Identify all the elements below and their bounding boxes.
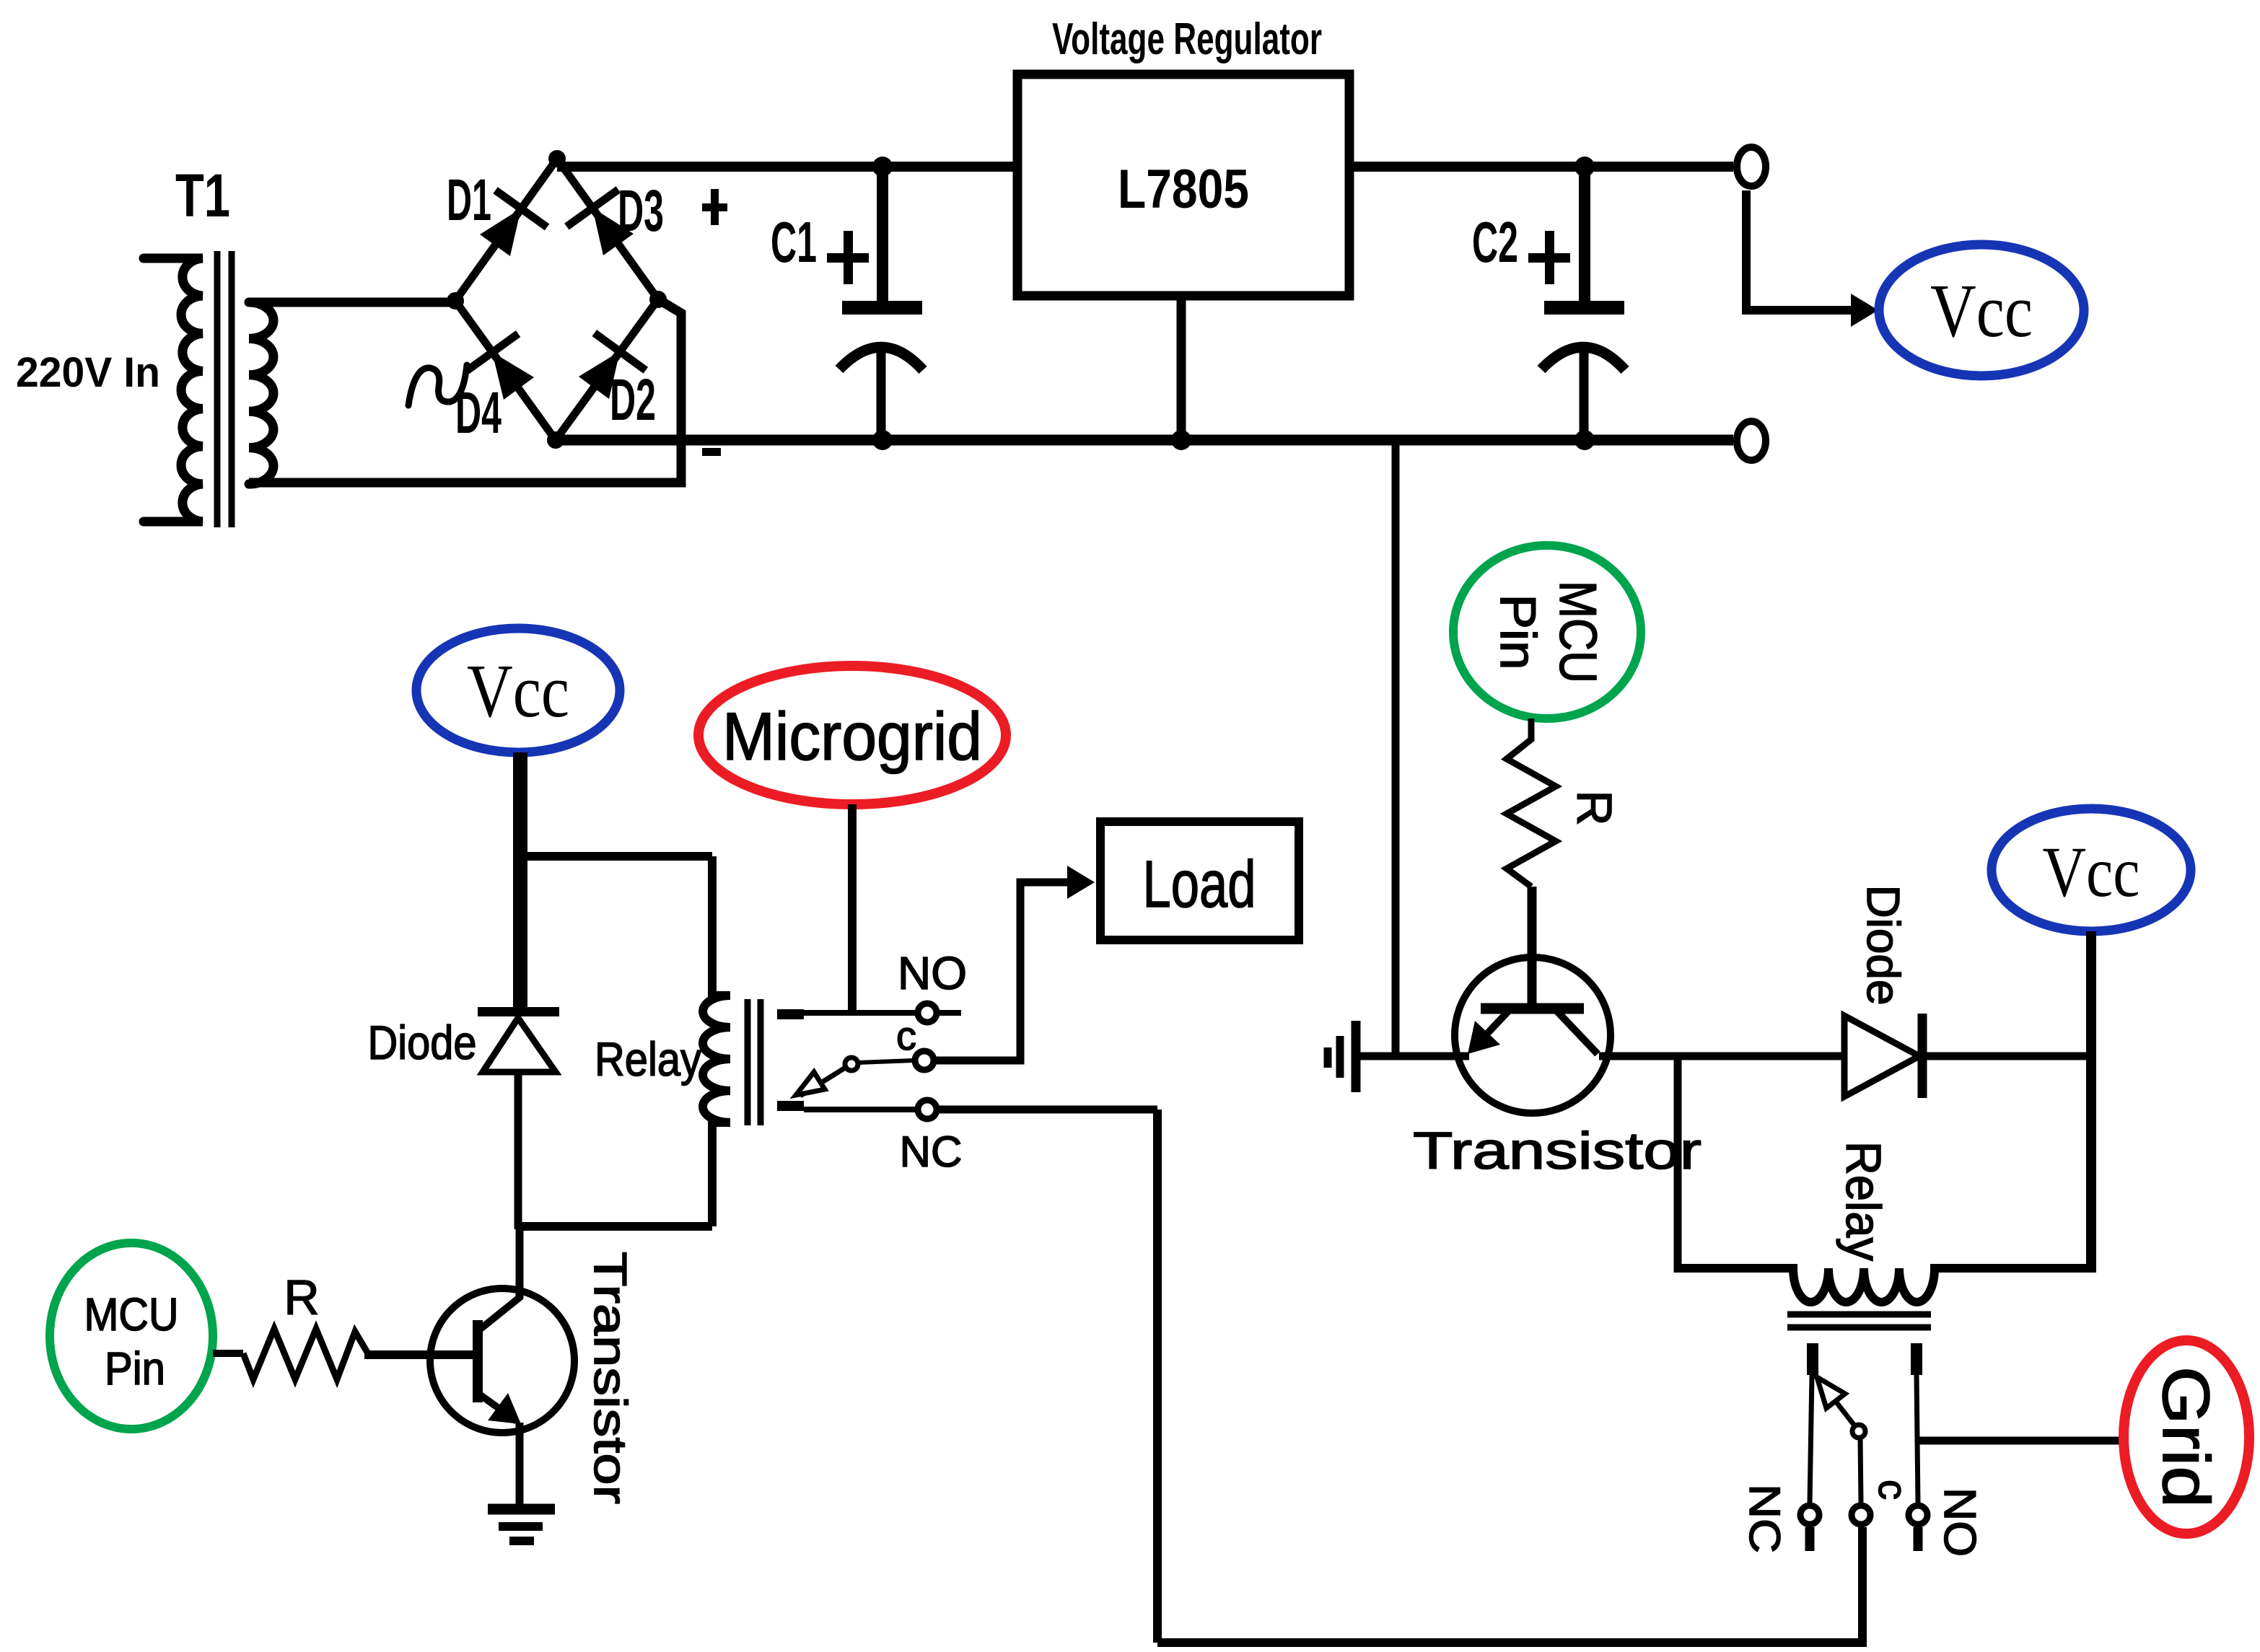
wire NO contact line [804, 1010, 961, 1016]
terminal C (left) [915, 1051, 934, 1070]
svg-text:D3: D3 [618, 178, 664, 244]
terminal NC (left) [918, 1100, 937, 1119]
label - (bridge negative) [702, 448, 721, 456]
wire Microgrid down [848, 804, 857, 1013]
wire relay loop bottom [518, 1222, 712, 1231]
Vcc net label (right) [1992, 809, 2191, 931]
MCU Pin net label (right) [1453, 545, 1641, 719]
wire bottom return [1157, 1638, 1867, 1647]
label NO (right) [1935, 1488, 1984, 1557]
wire collector lead [1599, 1053, 2091, 1060]
voltage regulator U1 box [1017, 74, 1349, 296]
label Relay (left) [595, 1032, 701, 1086]
relay coil (right) [1678, 1268, 2091, 1302]
node regulator ground [1171, 430, 1191, 450]
svg-text:Pin: Pin [105, 1343, 165, 1394]
diode D6 (left) [478, 1007, 559, 1072]
Microgrid net label [698, 666, 1006, 804]
svg-text:C2: C2 [1472, 210, 1518, 274]
diode D4 [455, 334, 534, 446]
resistor R (left) [243, 1329, 369, 1379]
node bridge right [649, 291, 667, 308]
node bridge left [447, 292, 464, 309]
label Voltage Regulator [1052, 14, 1322, 64]
terminal NO (right) [1909, 1506, 1927, 1524]
transformer T1 label [175, 162, 230, 229]
Grid net label [2124, 1340, 2249, 1534]
label Diode (left) [368, 1016, 477, 1069]
ground (right, rotated) [1328, 1021, 1356, 1092]
svg-text:NO: NO [898, 947, 967, 999]
label c (left) [896, 1013, 916, 1058]
svg-text:D1: D1 [447, 167, 491, 233]
wire C contact down [1858, 1527, 1867, 1639]
capacitor C2 [1541, 167, 1625, 440]
label L7805 [1118, 159, 1249, 220]
relay core (left) [748, 999, 761, 1125]
svg-text:T1: T1 [175, 162, 230, 229]
svg-text:Transistor: Transistor [584, 1252, 636, 1504]
label c (right) [1870, 1480, 1916, 1500]
svg-text:Vcc: Vcc [467, 649, 569, 733]
wire right relay NO pin down [1917, 1375, 1918, 1503]
label C1 polarity + [827, 231, 869, 284]
diode D3 [566, 178, 664, 255]
svg-text:Diode: Diode [1857, 885, 1909, 1006]
svg-text:Pin: Pin [1490, 594, 1546, 670]
wire collector up [516, 1226, 524, 1299]
wire secondary top lead [249, 298, 459, 307]
relay armature (left) [777, 1058, 914, 1111]
wire positive bus [557, 162, 1013, 172]
wire ground bus [556, 435, 1733, 446]
wire bridge diamond [455, 159, 658, 440]
svg-text:Grid: Grid [2149, 1366, 2222, 1508]
label R (right) [1567, 790, 1621, 825]
node C1 bottom [872, 430, 893, 450]
transistor Q2 [1455, 887, 1611, 1113]
diode D5 (right) [1844, 1014, 1922, 1098]
svg-text:L7805: L7805 [1118, 159, 1249, 220]
diode D1 [447, 167, 547, 256]
svg-text:220V In: 220V In [16, 349, 160, 396]
resistor R (right) [1507, 719, 1556, 887]
label NC (right) [1740, 1484, 1789, 1553]
transformer T1 primary winding [144, 258, 203, 522]
wire NC stub (right) [1805, 1527, 1815, 1551]
node bridge bottom [547, 431, 564, 449]
node C2 bottom [1574, 430, 1595, 450]
relay contact pin NO (left) [777, 1009, 804, 1019]
relay armature (right) [1807, 1343, 1922, 1503]
label C2 [1472, 210, 1518, 274]
wire NC pin to ring (left) [804, 1107, 916, 1112]
wire Vcc down [513, 752, 527, 1011]
svg-text:NO: NO [1935, 1488, 1984, 1557]
svg-text:C1: C1 [771, 210, 817, 274]
transformer T1 secondary winding [249, 302, 273, 484]
label 220V In [16, 349, 160, 396]
wire diode to collector junction [514, 1075, 522, 1229]
terminal C (right) [1852, 1506, 1870, 1524]
label R (left) [284, 1270, 319, 1325]
label NO (left) [898, 947, 967, 999]
svg-text:NC: NC [900, 1128, 963, 1176]
diode D2 [579, 333, 656, 433]
wire to Vcc terminal [1746, 190, 1878, 327]
svg-text:MCU: MCU [84, 1288, 179, 1340]
terminal NO (left) [918, 1003, 937, 1022]
svg-text:D2: D2 [610, 367, 656, 433]
Load box [1100, 822, 1299, 940]
wire relay loop top [520, 852, 712, 861]
svg-text:Vcc: Vcc [2043, 832, 2140, 912]
label Load [1143, 848, 1256, 921]
svg-text:c: c [896, 1013, 916, 1058]
svg-text:Relay: Relay [595, 1032, 701, 1086]
svg-text:Load: Load [1143, 848, 1256, 921]
label + (bridge positive) [702, 189, 727, 225]
label NC (left) [900, 1128, 963, 1176]
label Transistor (left) [584, 1252, 636, 1504]
node bridge top [548, 150, 566, 167]
svg-text:Voltage Regulator: Voltage Regulator [1052, 14, 1322, 64]
transformer T1 core [217, 251, 232, 527]
wire NC riser (left) [1153, 1110, 1162, 1643]
wire right ground to emitter [1360, 1053, 1469, 1060]
Vcc net label (top right) [1879, 245, 2084, 376]
wire bus branch down [1392, 445, 1400, 1056]
terminal positive output [1737, 147, 1766, 186]
wire C to Load [935, 866, 1095, 1060]
node C2 top [1574, 157, 1595, 177]
relay coil (left) [703, 856, 730, 1226]
label C1 [771, 210, 817, 274]
svg-text:NC: NC [1740, 1484, 1789, 1553]
wire MCU to resistor [213, 1350, 243, 1357]
AC sine symbol [408, 365, 467, 405]
wire NO stub (right) [1914, 1527, 1923, 1551]
MCU Pin net label (left) [50, 1243, 213, 1429]
svg-text:R: R [284, 1270, 319, 1325]
wire emitter down [516, 1423, 524, 1508]
node C1 top [872, 157, 893, 177]
terminal NC (right) [1800, 1506, 1819, 1524]
transistor Q1 [430, 1288, 574, 1433]
svg-text:R: R [1567, 790, 1621, 825]
wire Vcc to relay coil [2086, 931, 2096, 1273]
relay core (right) [1787, 1314, 1931, 1327]
wire regulator output [1354, 162, 1733, 172]
wire resistor to base [364, 1350, 475, 1359]
label Relay (right) [1836, 1141, 1891, 1261]
svg-text:Vcc: Vcc [1930, 268, 2033, 353]
svg-text:Diode: Diode [368, 1016, 477, 1069]
wire relay branch down [1674, 1056, 1682, 1273]
capacitor C1 [839, 167, 923, 440]
label C2 polarity + [1528, 231, 1570, 284]
wire secondary bottom lead [249, 300, 681, 483]
wire regulator ground pin [1177, 296, 1186, 440]
svg-text:Transistor: Transistor [1413, 1122, 1701, 1180]
svg-text:Relay: Relay [1836, 1141, 1891, 1261]
label Transistor (right) [1413, 1122, 1701, 1180]
svg-text:MCU: MCU [1549, 581, 1606, 683]
terminal negative output [1737, 421, 1766, 460]
ground (left) [488, 1509, 555, 1541]
wire NO to Grid [1918, 1437, 2124, 1445]
svg-text:c: c [1870, 1480, 1916, 1500]
Vcc net label (left) [416, 628, 620, 752]
label Diode (right) [1857, 885, 1909, 1006]
wire NC out [938, 1106, 1157, 1114]
svg-text:Microgrid: Microgrid [722, 698, 982, 774]
